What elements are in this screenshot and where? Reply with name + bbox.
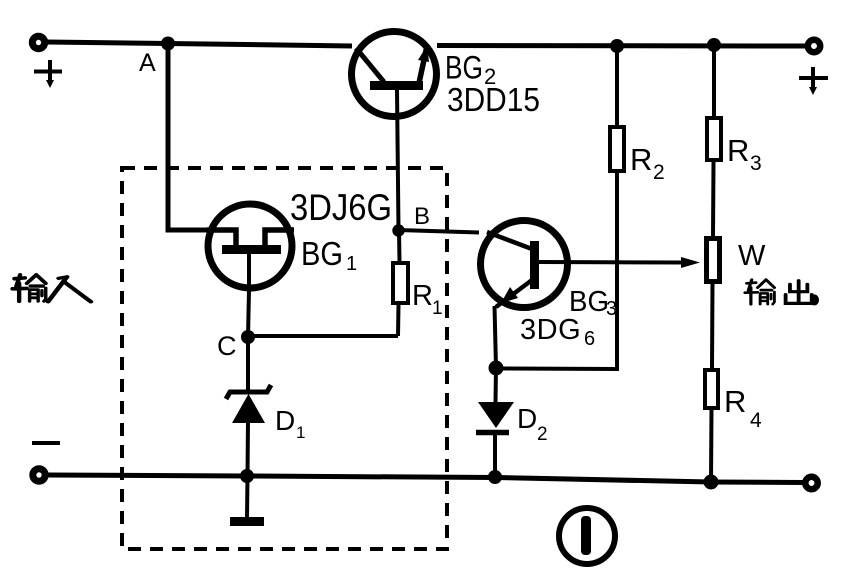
svg-text:3DD15: 3DD15 xyxy=(447,81,540,118)
svg-text:6: 6 xyxy=(584,328,595,350)
svg-text:C: C xyxy=(217,331,237,361)
svg-text:1: 1 xyxy=(432,298,443,319)
svg-text:R: R xyxy=(727,133,749,168)
svg-text:3: 3 xyxy=(606,298,617,320)
svg-text:4: 4 xyxy=(750,409,762,432)
svg-text:3DG: 3DG xyxy=(520,314,581,346)
svg-text:1: 1 xyxy=(296,423,305,442)
svg-text:3DJ6G: 3DJ6G xyxy=(290,187,392,228)
svg-text:W: W xyxy=(738,240,766,272)
svg-text:2: 2 xyxy=(653,161,665,184)
svg-text:R: R xyxy=(630,142,652,177)
svg-text:2: 2 xyxy=(537,424,548,445)
svg-text:R: R xyxy=(724,384,746,419)
svg-text:D: D xyxy=(517,403,537,434)
svg-text:B: B xyxy=(414,203,430,230)
svg-text:3: 3 xyxy=(750,152,762,175)
svg-text:R: R xyxy=(412,280,433,312)
svg-text:A: A xyxy=(139,49,156,77)
svg-text:D: D xyxy=(275,405,295,436)
svg-text:1: 1 xyxy=(346,253,357,275)
svg-text:BG: BG xyxy=(301,235,343,272)
